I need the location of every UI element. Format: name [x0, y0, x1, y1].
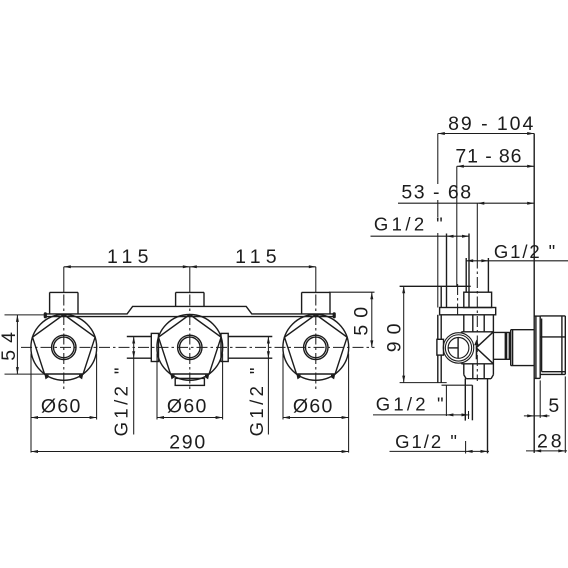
- svg-text:G1/2 ": G1/2 ": [494, 241, 557, 262]
- svg-text:5: 5: [548, 395, 559, 417]
- svg-text:54: 54: [0, 325, 20, 361]
- svg-text:28: 28: [537, 431, 565, 453]
- svg-text:50: 50: [351, 300, 373, 336]
- svg-text:115: 115: [107, 246, 154, 268]
- svg-text:Ø60: Ø60: [293, 396, 334, 418]
- svg-text:G1/2 ": G1/2 ": [374, 213, 446, 234]
- svg-text:90: 90: [384, 317, 406, 353]
- svg-text:71 - 86: 71 - 86: [455, 146, 522, 168]
- svg-text:53 - 68: 53 - 68: [401, 181, 472, 203]
- svg-text:Ø60: Ø60: [41, 396, 82, 418]
- svg-text:89 - 104: 89 - 104: [448, 113, 535, 135]
- svg-text:G1/2 ": G1/2 ": [246, 364, 267, 436]
- svg-text:G1/2 ": G1/2 ": [395, 431, 459, 452]
- svg-text:115: 115: [235, 246, 282, 268]
- svg-text:290: 290: [169, 432, 207, 454]
- svg-text:G1/2 ": G1/2 ": [376, 394, 447, 415]
- svg-text:G1/2 ": G1/2 ": [111, 364, 132, 436]
- svg-text:Ø60: Ø60: [167, 396, 208, 418]
